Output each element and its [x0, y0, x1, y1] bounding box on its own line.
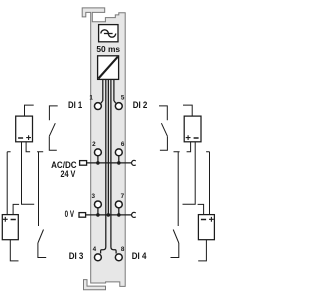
pin 2 clamp contact — [94, 149, 101, 156]
svg-text:4: 4 — [93, 246, 97, 253]
AC/DC 24V rail wire — [87, 162, 132, 164]
svg-text:3: 3 — [91, 193, 95, 200]
svg-text:DI 4: DI 4 — [132, 251, 147, 261]
battery B1 (left top supply) — [16, 116, 33, 142]
junction dot pin3/0V — [96, 213, 100, 217]
AC sine symbol — [101, 30, 116, 37]
rail carrier wire left — [37, 152, 43, 226]
pin 1 clamp contact — [94, 103, 101, 110]
rail carrier wire right — [174, 152, 180, 226]
pin number 8 — [121, 246, 125, 253]
wire from electronics to pin 1 — [101, 79, 103, 103]
label 50 ms — [96, 44, 120, 54]
0V rail jumper contact arc — [132, 212, 136, 217]
module body outline (WAGO I/O module 2D contour) — [82, 8, 125, 287]
switch S3 (DI 2) — [159, 106, 167, 150]
label 24 V — [61, 169, 76, 179]
wire from electronics to pin 5 — [114, 79, 116, 103]
label DI 1 — [68, 100, 82, 110]
wire B1 plus to rail — [26, 142, 30, 152]
pin number 7 — [121, 193, 125, 200]
pin number 3 — [91, 193, 95, 200]
internal bus centre wire to 0V — [107, 79, 109, 215]
module bottom-left mounting foot — [84, 280, 106, 290]
wire B3 top to DI2 switch — [183, 105, 192, 116]
battery B4 (right bottom supply) — [198, 215, 214, 240]
svg-text:DI 3: DI 3 — [69, 251, 84, 261]
battery B2 (left bottom supply) — [2, 215, 18, 240]
label 0 V — [65, 209, 74, 219]
label DI 2 — [133, 100, 148, 110]
AC/DC rail jumper contact arc — [132, 160, 136, 165]
svg-text:2: 2 — [92, 141, 96, 148]
svg-text:DI 2: DI 2 — [133, 100, 148, 110]
wire B3 minus down — [183, 142, 196, 205]
svg-text:6: 6 — [121, 141, 125, 148]
svg-text:0 V: 0 V — [65, 209, 74, 219]
pin number 4 — [93, 246, 97, 253]
wire B1 minus down — [22, 142, 35, 205]
junction dot centre/0V — [107, 213, 111, 217]
far right wire to B4 — [206, 152, 209, 215]
pin number 1 — [89, 95, 93, 102]
internal bus wire to pin 4 — [101, 79, 106, 253]
pin 7 stub — [118, 208, 120, 215]
pin 6 stub — [118, 156, 120, 163]
wire B4 minus riser — [198, 204, 204, 214]
wire B1 top to DI1 switch — [25, 105, 34, 116]
pin number 6 — [121, 141, 125, 148]
pin 4 clamp contact — [94, 254, 101, 261]
pin 5 clamp contact — [115, 103, 122, 110]
far left wire to B2 — [7, 152, 10, 215]
pin 8 clamp contact — [115, 254, 122, 261]
pin 7 clamp contact — [115, 201, 122, 208]
0V rail wire — [86, 214, 132, 216]
svg-text:5: 5 — [121, 95, 125, 102]
wire B2 minus riser — [13, 204, 19, 214]
input electronics box U1 (diagonal) — [98, 56, 119, 80]
svg-text:1: 1 — [89, 95, 93, 102]
pin 3 clamp contact — [94, 201, 101, 208]
wire B4 bottom to DI4 — [198, 240, 206, 261]
label DI 4 — [132, 251, 147, 261]
svg-text:7: 7 — [121, 193, 125, 200]
junction dot pin7/0V — [117, 213, 121, 217]
label AC/DC — [51, 160, 77, 170]
AC/DC supply symbol box — [99, 25, 118, 42]
switch S4 (DI 4) — [171, 230, 179, 258]
battery B3 (right top supply) — [184, 116, 201, 142]
pin number 2 — [92, 141, 96, 148]
pin 2 stub — [97, 156, 99, 163]
wire B2 bottom to DI3 — [10, 240, 18, 261]
svg-text:24 V: 24 V — [61, 169, 76, 179]
svg-text:50 ms: 50 ms — [96, 44, 120, 54]
switch S1 (DI 1) — [49, 106, 57, 150]
svg-text:DI 1: DI 1 — [68, 100, 82, 110]
junction dot pin2/AC — [96, 161, 100, 165]
junction dot pin6/AC — [117, 161, 121, 165]
0V rail connector tab — [79, 213, 86, 218]
svg-text:8: 8 — [121, 246, 125, 253]
internal bus wire to pin 8 — [111, 79, 116, 253]
switch S2 (DI 3) — [38, 230, 46, 258]
pin 6 clamp contact — [115, 149, 122, 156]
pin number 5 — [121, 95, 125, 102]
AC/DC rail connector tab — [80, 161, 87, 166]
pin 3 stub — [97, 208, 99, 215]
label DI 3 — [69, 251, 84, 261]
wire B3 plus to rail — [187, 142, 191, 152]
